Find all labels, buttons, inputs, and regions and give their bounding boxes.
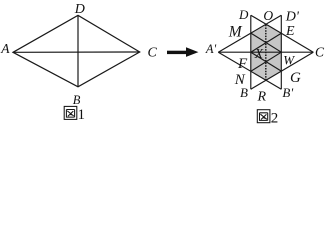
svg-text:D: D	[74, 2, 85, 17]
svg-text:C: C	[148, 46, 158, 61]
svg-text:D': D'	[285, 9, 300, 24]
svg-text:B: B	[73, 93, 81, 107]
svg-text:D: D	[238, 7, 249, 22]
svg-text:1: 1	[78, 107, 86, 123]
svg-text:F: F	[237, 56, 248, 72]
svg-text:A: A	[0, 41, 10, 56]
svg-text:B': B'	[282, 85, 293, 100]
svg-text:W: W	[283, 53, 295, 68]
svg-text:C: C	[315, 45, 325, 60]
svg-text:E: E	[285, 24, 295, 39]
svg-text:O: O	[263, 8, 273, 23]
svg-text:G: G	[290, 70, 301, 86]
svg-text:R: R	[257, 90, 267, 105]
svg-text:2: 2	[271, 111, 279, 124]
svg-text:M: M	[228, 23, 243, 40]
svg-text:A': A'	[205, 42, 217, 56]
svg-text:X: X	[254, 46, 264, 61]
svg-text:B: B	[240, 85, 248, 100]
